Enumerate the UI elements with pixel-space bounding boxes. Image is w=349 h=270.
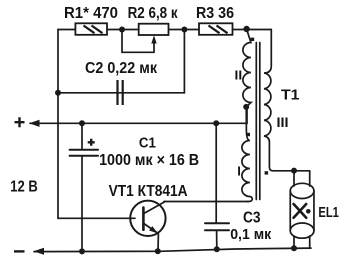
svg-text:II: II [235, 67, 243, 82]
svg-text:C2 0,22 мк: C2 0,22 мк [85, 60, 158, 77]
svg-text:I: I [237, 163, 241, 178]
svg-text:T1: T1 [281, 87, 300, 103]
svg-text:12 В: 12 В [10, 179, 38, 196]
svg-text:C3: C3 [243, 210, 261, 227]
svg-text:1000 мк × 16 В: 1000 мк × 16 В [99, 152, 199, 169]
svg-text:R1* 470: R1* 470 [64, 5, 118, 22]
svg-text:C1: C1 [139, 135, 156, 151]
svg-text:EL1: EL1 [318, 205, 339, 221]
svg-text:III: III [277, 114, 289, 130]
svg-text:R2 6,8 к: R2 6,8 к [128, 5, 179, 22]
svg-text:0,1 мк: 0,1 мк [230, 227, 272, 243]
svg-text:VT1 КТ841А: VT1 КТ841А [109, 183, 188, 200]
svg-text:R3 36: R3 36 [196, 5, 234, 22]
